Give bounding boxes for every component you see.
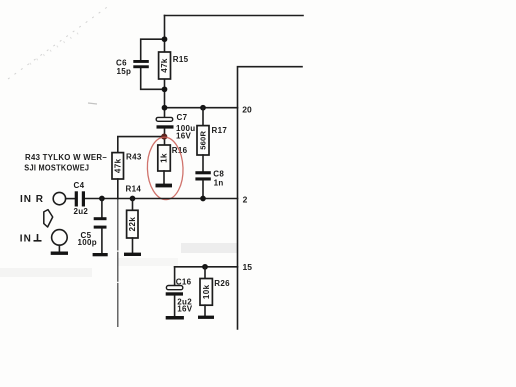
wire: input to C4 <box>66 198 75 200</box>
wire: C16 to ground <box>174 296 176 317</box>
svg-text:C8: C8 <box>213 169 224 178</box>
input terminal IN GND <box>52 230 68 246</box>
resistor R26 <box>204 267 206 279</box>
wire: pin 2 net <box>85 198 238 200</box>
ground (R16) <box>156 184 173 188</box>
node junction R14 <box>130 196 136 202</box>
svg-text:R15: R15 <box>173 55 189 64</box>
wire: R14 to ground <box>132 238 134 253</box>
capacitor C16 (electrolytic) <box>166 286 183 296</box>
node junction C8/pin2 <box>200 196 206 202</box>
wire: R43 down to input net <box>117 179 119 199</box>
svg-text:10k: 10k <box>202 284 211 299</box>
wire: IC boundary <box>238 67 303 329</box>
wire: pin 15 net <box>175 266 238 268</box>
svg-text:2: 2 <box>243 194 248 204</box>
red annotation ellipse around R16 <box>146 137 184 201</box>
svg-text:16V: 16V <box>176 131 191 140</box>
svg-text:15: 15 <box>243 262 253 272</box>
svg-text:22k: 22k <box>128 217 137 232</box>
node junction R43/R16 (maroon) <box>161 134 167 140</box>
ground (C16) <box>166 316 184 320</box>
wire: faint continuation below input net <box>117 199 119 328</box>
arrow marker between inputs <box>44 210 53 227</box>
capacitor C7 (electrolytic) <box>156 117 173 128</box>
node junction top of R15/C6 <box>162 36 168 42</box>
node junction R17/pin20 <box>200 105 206 111</box>
svg-text:C16: C16 <box>176 278 192 287</box>
scan smudge band near pin 15 <box>181 243 237 253</box>
capacitor C6 plates <box>133 60 149 68</box>
wire: R17 to C8 <box>202 155 204 171</box>
wire: C6 branch lower jog <box>141 68 165 90</box>
svg-text:R43 TYLKO W WER–: R43 TYLKO W WER– <box>25 153 107 162</box>
resistor R17 <box>202 108 204 126</box>
svg-text:16V: 16V <box>177 305 192 314</box>
resistor R15 <box>159 52 171 79</box>
node junction bottom of R15/C6 <box>162 86 168 92</box>
svg-text:47k: 47k <box>113 158 122 173</box>
svg-text:560R: 560R <box>199 131 208 150</box>
svg-text:20: 20 <box>242 104 252 114</box>
wire: jog to R43 <box>118 137 164 153</box>
resistor R43 <box>112 153 124 179</box>
ground (IN) <box>51 252 68 255</box>
GND glyph <box>34 234 42 241</box>
svg-text:SJI MOSTKOWEJ: SJI MOSTKOWEJ <box>24 163 89 172</box>
wire: pin 20 net <box>165 107 238 109</box>
svg-text:R17: R17 <box>212 126 228 135</box>
wire: C16 stub <box>174 267 176 286</box>
resistor R14 <box>132 199 134 211</box>
svg-text:100p: 100p <box>78 238 97 247</box>
ground (C5) <box>93 253 108 256</box>
wire: R16 to ground <box>163 171 165 184</box>
capacitor C5 plates <box>94 217 107 228</box>
node junction C5 <box>99 196 105 202</box>
wire: C5 branch upper <box>101 199 103 218</box>
wire: top supply rail <box>165 15 304 17</box>
svg-text:C4: C4 <box>74 181 85 190</box>
svg-text:15p: 15p <box>117 67 132 76</box>
svg-text:47k: 47k <box>160 58 169 73</box>
svg-text:IN: IN <box>20 233 32 244</box>
svg-text:2u2: 2u2 <box>74 207 89 216</box>
scan smudge top-left diagonal <box>8 5 110 104</box>
svg-text:1k: 1k <box>160 153 169 163</box>
capacitor C8 plates <box>195 171 210 180</box>
resistor R16 <box>158 145 171 171</box>
ground (R14) <box>124 253 141 256</box>
wire: C7 bottom to R16 node <box>164 129 166 145</box>
svg-text:R14: R14 <box>126 185 142 194</box>
ground (R26) <box>198 316 214 319</box>
wire: C6 branch upper jog <box>141 39 165 60</box>
svg-text:C7: C7 <box>177 113 188 122</box>
capacitor C4 plates <box>75 191 85 206</box>
wire: main vertical from top rail to C7 <box>164 16 166 118</box>
svg-text:R26: R26 <box>214 279 230 288</box>
input terminal IN R <box>53 192 65 204</box>
wire: C8 to pin2 net <box>202 181 204 199</box>
node junction main/pin20 <box>162 105 168 111</box>
wire: IN GND to ground <box>58 245 60 251</box>
svg-text:1n: 1n <box>214 179 224 188</box>
wire: C5 branch lower <box>101 229 103 253</box>
svg-text:R43: R43 <box>126 152 142 161</box>
node junction R26/pin15 <box>202 264 208 270</box>
wire: R26 to ground <box>204 305 206 316</box>
svg-text:IN R: IN R <box>20 194 44 205</box>
